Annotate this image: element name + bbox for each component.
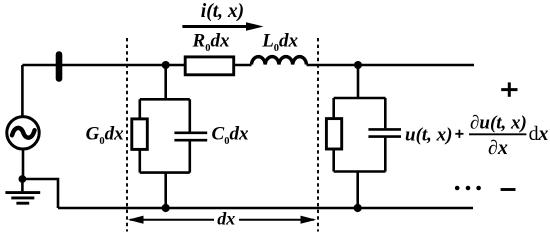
svg-text:i(t, x): i(t, x) [201,1,244,22]
svg-text:u(t, x): u(t, x) [405,125,453,146]
svg-text:R0dx: R0dx [192,31,230,55]
svg-text:∂u(t, x): ∂u(t, x) [470,113,527,134]
svg-text:x: x [537,123,548,145]
svg-text:C0dx: C0dx [212,123,249,147]
svg-text:∂x: ∂x [488,137,508,159]
svg-text:d: d [529,123,539,145]
svg-text:L0dx: L0dx [261,31,298,55]
svg-text:dx: dx [217,209,235,229]
svg-text:G0dx: G0dx [86,123,124,147]
